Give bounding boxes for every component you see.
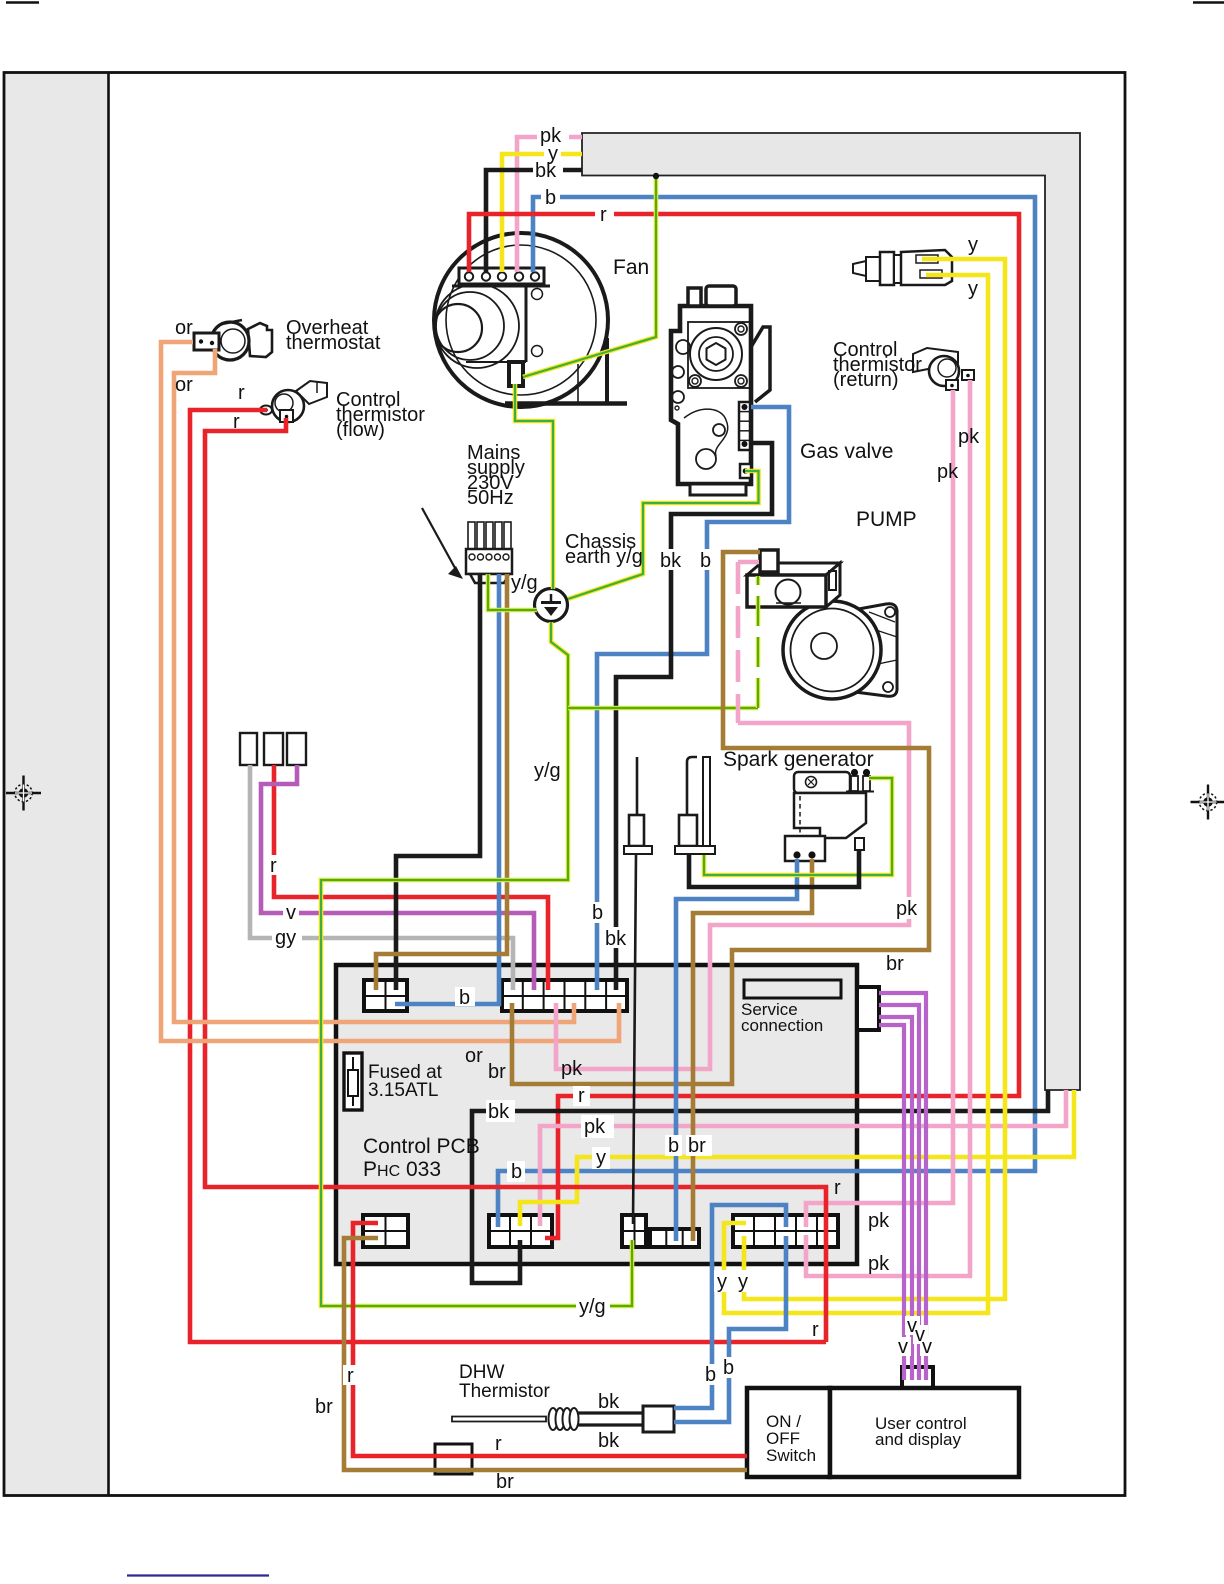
- svg-text:Gas valve: Gas valve: [800, 440, 893, 463]
- wire y sensor to PCB E lower: [724, 275, 988, 1313]
- svg-text:(flow): (flow): [336, 419, 385, 441]
- connector E2 (PCB bottom mid-left): [489, 1215, 552, 1247]
- svg-text:PHC 033: PHC 033: [363, 1158, 441, 1181]
- svg-text:bk: bk: [598, 1430, 620, 1452]
- wire br mains to PCB A: [376, 574, 507, 990]
- svg-text:pk: pk: [896, 898, 918, 920]
- svg-text:r: r: [347, 1365, 354, 1387]
- sidebar divider: [107, 73, 110, 1496]
- wire or overheat 2: [174, 349, 574, 1022]
- wire pk loom to PCB E2: [540, 1090, 1066, 1226]
- inline connector on switch feed: [435, 1444, 472, 1474]
- svg-text:pk: pk: [937, 461, 959, 483]
- wire bk gas valve to PCB B: [616, 443, 772, 990]
- svg-text:y/g: y/g: [534, 760, 561, 782]
- svg-text:Spark generator: Spark generator: [723, 748, 874, 771]
- wire y loom to PCB E2: [520, 1090, 1074, 1226]
- svg-text:r: r: [270, 855, 277, 877]
- svg-text:Switch: Switch: [766, 1446, 816, 1465]
- bottom navy rule: [127, 1574, 269, 1576]
- wire b DHW 1: [674, 1205, 786, 1408]
- wire y/g fan earth tab to loom: [523, 176, 656, 377]
- wire bk electrode sense rod: [633, 854, 636, 1224]
- svg-text:br: br: [886, 953, 904, 975]
- wire pk pump to PCB B: [738, 560, 759, 565]
- svg-text:b: b: [459, 987, 470, 1009]
- fuse F1 3.15ATL: [344, 1053, 362, 1110]
- wire v user 3: [879, 1017, 912, 1380]
- svg-text:v: v: [922, 1336, 932, 1358]
- wire r flow thermistor 2: [205, 418, 826, 1342]
- flue sensor top-right: [853, 250, 952, 285]
- svg-text:y: y: [738, 1271, 748, 1293]
- DHW thermistor probe: [452, 1406, 674, 1432]
- svg-text:(return): (return): [833, 369, 899, 391]
- wire b fan to PCB E2: [498, 197, 1035, 1227]
- svg-text:thermostat: thermostat: [286, 332, 381, 354]
- svg-text:b: b: [592, 902, 603, 924]
- svg-text:v: v: [898, 1336, 908, 1358]
- svg-text:r: r: [812, 1319, 819, 1341]
- svg-text:y/g: y/g: [511, 572, 538, 594]
- svg-text:br: br: [688, 1135, 706, 1157]
- registration mark right: [1191, 785, 1224, 820]
- svg-text:and display: and display: [875, 1430, 962, 1449]
- label backgrounds: [266, 125, 935, 1385]
- wire br pump to PCB B: [512, 552, 929, 1084]
- wire bk mains to PCB A: [396, 574, 480, 990]
- svg-text:v: v: [286, 902, 296, 924]
- service connection stub box: [857, 987, 879, 1030]
- wire gy terminal to PCB B: [250, 765, 513, 990]
- svg-text:y: y: [717, 1271, 727, 1293]
- wire bk spark HT lead: [689, 850, 859, 887]
- connector E (PCB bottom 5-way): [733, 1215, 838, 1247]
- svg-text:3.15ATL: 3.15ATL: [368, 1080, 438, 1101]
- svg-text:r: r: [578, 1085, 585, 1107]
- svg-text:pk: pk: [958, 426, 980, 448]
- wire bk fan-loom: [486, 170, 582, 272]
- top-right crop rule: [1193, 1, 1224, 4]
- wire v terminal to PCB B: [261, 765, 534, 990]
- mains supply connector: [466, 522, 512, 583]
- svg-text:b: b: [723, 1357, 734, 1379]
- svg-text:earth y/g: earth y/g: [565, 546, 643, 568]
- spare terminal 2: [264, 733, 283, 765]
- wire r PCB D to switch: [353, 1223, 747, 1456]
- wire b gas valve to PCB B: [597, 407, 789, 990]
- svg-text:y: y: [596, 1147, 606, 1169]
- wire or overheat 1: [161, 342, 619, 1041]
- wire y/g gas valve to earth: [568, 471, 759, 599]
- wire y/g earth chain to PCB C1: [321, 622, 632, 1306]
- spare terminal 1: [240, 733, 257, 765]
- fan: [434, 233, 627, 407]
- svg-text:or: or: [175, 317, 193, 339]
- junction dot loom earth: [653, 173, 659, 179]
- svg-text:y/g: y/g: [579, 1296, 606, 1318]
- spark electrode 1: [624, 757, 652, 854]
- wire v user 4: [879, 1025, 904, 1380]
- svg-text:DHW: DHW: [459, 1362, 504, 1383]
- control thermistor (flow): [260, 381, 327, 422]
- wire y sensor to PCB E: [744, 259, 1005, 1299]
- svg-text:Control PCB: Control PCB: [363, 1135, 480, 1158]
- wire v user 1: [879, 993, 926, 1380]
- pump: [747, 550, 897, 699]
- wiring loom band: [582, 133, 1080, 1090]
- connector D (PCB bottom-left): [363, 1215, 408, 1247]
- overheat thermostat: [194, 320, 272, 360]
- wire y/g earth to pump: [568, 706, 758, 711]
- svg-text:pk: pk: [868, 1253, 890, 1275]
- svg-text:r: r: [600, 204, 607, 226]
- wire r fan to PCB E2: [469, 214, 1019, 1238]
- svg-text:PUMP: PUMP: [856, 508, 917, 531]
- wire y/g fan tab to earth: [515, 384, 553, 589]
- connector C1 (spark sense 2x2): [622, 1215, 646, 1247]
- wire pk return thermistor 2: [806, 380, 970, 1276]
- svg-text:pk: pk: [868, 1210, 890, 1232]
- svg-text:b: b: [700, 550, 711, 572]
- service connection slot: [744, 980, 841, 998]
- wire v user 2: [879, 1005, 919, 1380]
- svg-text:bk: bk: [605, 928, 627, 950]
- wire r flow thermistor 1: [190, 410, 826, 1342]
- svg-text:connection: connection: [741, 1016, 823, 1035]
- svg-text:r: r: [238, 382, 245, 404]
- wire y/g spark loop: [704, 778, 892, 875]
- user control and display box: [830, 1388, 1019, 1477]
- svg-text:gy: gy: [275, 927, 296, 949]
- wire b spark to PCB C2: [676, 859, 797, 1241]
- mains arrow: [422, 508, 463, 579]
- registration mark left: [6, 776, 41, 811]
- svg-text:r: r: [834, 1177, 841, 1199]
- svg-text:r: r: [233, 411, 240, 433]
- svg-text:y: y: [968, 234, 978, 256]
- svg-text:br: br: [496, 1471, 514, 1493]
- svg-text:b: b: [668, 1135, 679, 1157]
- svg-text:r: r: [495, 1433, 502, 1455]
- Control PCB body PHC 033: [336, 965, 857, 1264]
- svg-text:pk: pk: [584, 1116, 606, 1138]
- svg-text:bk: bk: [535, 160, 557, 182]
- svg-text:br: br: [315, 1396, 333, 1418]
- wire b DHW 2: [674, 1236, 786, 1422]
- wire r terminal to PCB B: [274, 765, 548, 990]
- ON/OFF switch box: [747, 1388, 830, 1477]
- left sidebar: [5, 73, 108, 1495]
- spare terminal 3: [287, 733, 306, 765]
- top-left crop rule: [6, 1, 39, 4]
- svg-text:pk: pk: [561, 1058, 583, 1080]
- spark generator: [785, 769, 874, 861]
- svg-text:b: b: [705, 1364, 716, 1386]
- svg-text:Fan: Fan: [613, 256, 649, 279]
- svg-text:or: or: [465, 1045, 483, 1067]
- gas valve: [671, 286, 770, 495]
- svg-text:b: b: [545, 187, 556, 209]
- wire y/g mains to earth: [488, 574, 537, 610]
- wire bk loom to PCB E2: [472, 1090, 1048, 1283]
- user display connector box: [902, 1367, 933, 1389]
- svg-text:or: or: [175, 374, 193, 396]
- chassis earth symbol: [535, 589, 568, 622]
- connector A (PCB mains): [364, 980, 407, 1011]
- wire pk fan-loom: [517, 137, 582, 272]
- wire b mains to PCB A: [395, 574, 499, 1004]
- svg-text:50Hz: 50Hz: [467, 487, 514, 509]
- spark electrode 2: [675, 757, 715, 854]
- svg-text:Thermistor: Thermistor: [459, 1381, 550, 1402]
- wire br spark to PCB C2: [693, 859, 812, 1241]
- connector C2 (spark 3-way): [650, 1229, 699, 1247]
- svg-text:y: y: [968, 278, 978, 300]
- svg-text:bk: bk: [660, 550, 682, 572]
- svg-text:bk: bk: [598, 1391, 620, 1413]
- wire br PCB D to switch: [344, 1238, 747, 1470]
- svg-text:br: br: [488, 1061, 506, 1083]
- connector B (PCB top 6-way): [502, 980, 627, 1011]
- wire pk return thermistor 1: [806, 390, 953, 1227]
- svg-text:bk: bk: [488, 1101, 510, 1123]
- svg-text:b: b: [511, 1161, 522, 1183]
- control thermistor (return): [913, 348, 974, 390]
- wire y fan-loom: [502, 154, 582, 272]
